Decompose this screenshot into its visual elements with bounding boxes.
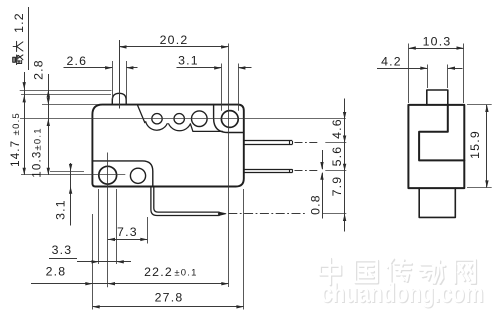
svg-text:14.7 ±0.5: 14.7 ±0.5 <box>10 112 22 167</box>
svg-text:22.2: 22.2 <box>144 265 173 279</box>
watermark char 中 shadow <box>321 259 341 285</box>
tick terminal1 <box>325 142 346 144</box>
top-right hole (dia 3.1) <box>221 111 238 128</box>
lower terminal centerline <box>295 170 319 172</box>
medium hole <box>192 111 208 127</box>
svg-text:27.8: 27.8 <box>155 290 184 304</box>
lever inner edge <box>154 187 219 213</box>
svg-text:3.3: 3.3 <box>52 243 73 257</box>
watermark: 中国传动网 chuandong.com (embossed) <box>320 258 485 309</box>
plunger button <box>112 93 126 104</box>
svg-text:2.8: 2.8 <box>31 59 45 80</box>
label max 1.2 (cjk drawn as strokes, rotated) <box>12 12 26 64</box>
dimension 15.9 side <box>467 104 492 106</box>
right dimension chain line <box>344 99 346 232</box>
side view plunger <box>427 90 448 105</box>
svg-text:15.9: 15.9 <box>468 130 482 159</box>
tick lever centerline <box>322 213 346 215</box>
svg-text:1.2: 1.2 <box>12 12 26 33</box>
rivet hole 1 <box>152 114 162 124</box>
scallop arc under rivet 2 and plate bottom edge <box>169 124 223 132</box>
svg-text:20.2: 20.2 <box>160 33 189 47</box>
scallop arc under rivet 1 <box>146 122 168 130</box>
svg-text:5.6: 5.6 <box>330 146 344 167</box>
side view inner profile <box>419 105 464 160</box>
bottom-left boss outline <box>92 161 152 187</box>
mounting hole horizontal centerline <box>21 174 125 176</box>
upper terminal centerline <box>295 142 319 144</box>
svg-text:4.2: 4.2 <box>381 54 402 68</box>
watermark char 传 highlight <box>387 259 410 284</box>
svg-text:2.8: 2.8 <box>46 264 67 278</box>
watermark char 网 highlight <box>455 259 475 282</box>
svg-text:7.9: 7.9 <box>330 176 344 197</box>
svg-text:±0.1: ±0.1 <box>174 267 197 278</box>
dimension 2.6 <box>64 67 113 69</box>
side view body <box>408 105 464 188</box>
svg-text:2.6: 2.6 <box>66 54 87 68</box>
lever centerline dash-dot <box>228 213 307 215</box>
lower terminal <box>244 169 292 171</box>
dimension 0.8 (lower terminal thickness) <box>322 150 324 169</box>
plunger centerline <box>119 40 121 109</box>
dimension 2.8 bottom and 22.2 <box>31 283 229 285</box>
dimension 10.3 side <box>408 44 410 104</box>
svg-text:10.3: 10.3 <box>423 34 452 48</box>
watermark char 传 shadow <box>388 260 411 285</box>
upper terminal <box>244 140 292 142</box>
lever extension <box>147 217 149 244</box>
lever outer edge <box>151 187 219 216</box>
svg-text:7.3: 7.3 <box>117 225 138 239</box>
dimension max 1.2 / 14.7 chain line <box>24 72 26 175</box>
char 大 <box>13 41 23 51</box>
horizontal centerline through holes <box>20 118 346 120</box>
svg-text:0.8: 0.8 <box>308 194 322 215</box>
char 最 <box>13 55 23 65</box>
dimension 2.8 / 10.3 chain line <box>48 74 50 175</box>
dimension 20.2 <box>119 46 228 48</box>
watermark char 动 highlight <box>419 261 444 283</box>
plunger left extension <box>112 61 114 99</box>
boss around top-right hole <box>214 105 244 133</box>
vertical centerline of top-right hole <box>228 44 230 288</box>
mounting hole (dia 3.3) <box>99 166 117 184</box>
body top extension line <box>42 104 98 106</box>
hole left extension <box>221 64 223 111</box>
svg-text:10.3±0.1: 10.3±0.1 <box>31 127 43 177</box>
plunger operating position line <box>21 94 111 96</box>
watermark char 网 shadow <box>456 261 476 284</box>
tick terminal2 <box>325 170 346 172</box>
label shelf for max 1.2 <box>28 7 30 70</box>
svg-text:4.6: 4.6 <box>330 118 344 139</box>
svg-text:chuandong.com: chuandong.com <box>321 278 484 308</box>
watermark char 中 highlight <box>320 258 340 284</box>
mount hole right edge extension <box>116 189 118 264</box>
second bottom hole <box>130 168 145 183</box>
mount hole left edge extension <box>98 189 100 264</box>
mounting hole vertical centerline <box>107 153 109 288</box>
body left extension down <box>92 214 94 310</box>
side view bottom tab <box>419 188 455 217</box>
dimension 3.1 left <box>50 171 84 173</box>
dimension 3.1 (hole dia) <box>177 67 222 69</box>
hole right extension <box>238 64 240 111</box>
svg-text:3.1: 3.1 <box>53 199 67 220</box>
plunger right extension <box>126 61 128 99</box>
rivet plate left diagonal edge <box>137 105 145 123</box>
svg-text:3.1: 3.1 <box>178 54 199 68</box>
dimension 4.2 side <box>377 68 428 70</box>
rivet hole 2 <box>174 114 184 124</box>
watermark char 国 highlight <box>355 260 377 282</box>
lever tip tick <box>218 212 220 216</box>
body right extension down <box>243 189 245 310</box>
switch body outline <box>92 105 243 187</box>
dimension 7.3 <box>108 239 148 241</box>
lever pointed tip <box>219 212 226 215</box>
dimension 3.3 <box>49 258 77 260</box>
watermark char 国 shadow <box>356 261 378 283</box>
dimension 27.8 <box>93 306 244 308</box>
plunger free position line <box>20 90 112 92</box>
watermark char 动 shadow <box>421 262 446 284</box>
